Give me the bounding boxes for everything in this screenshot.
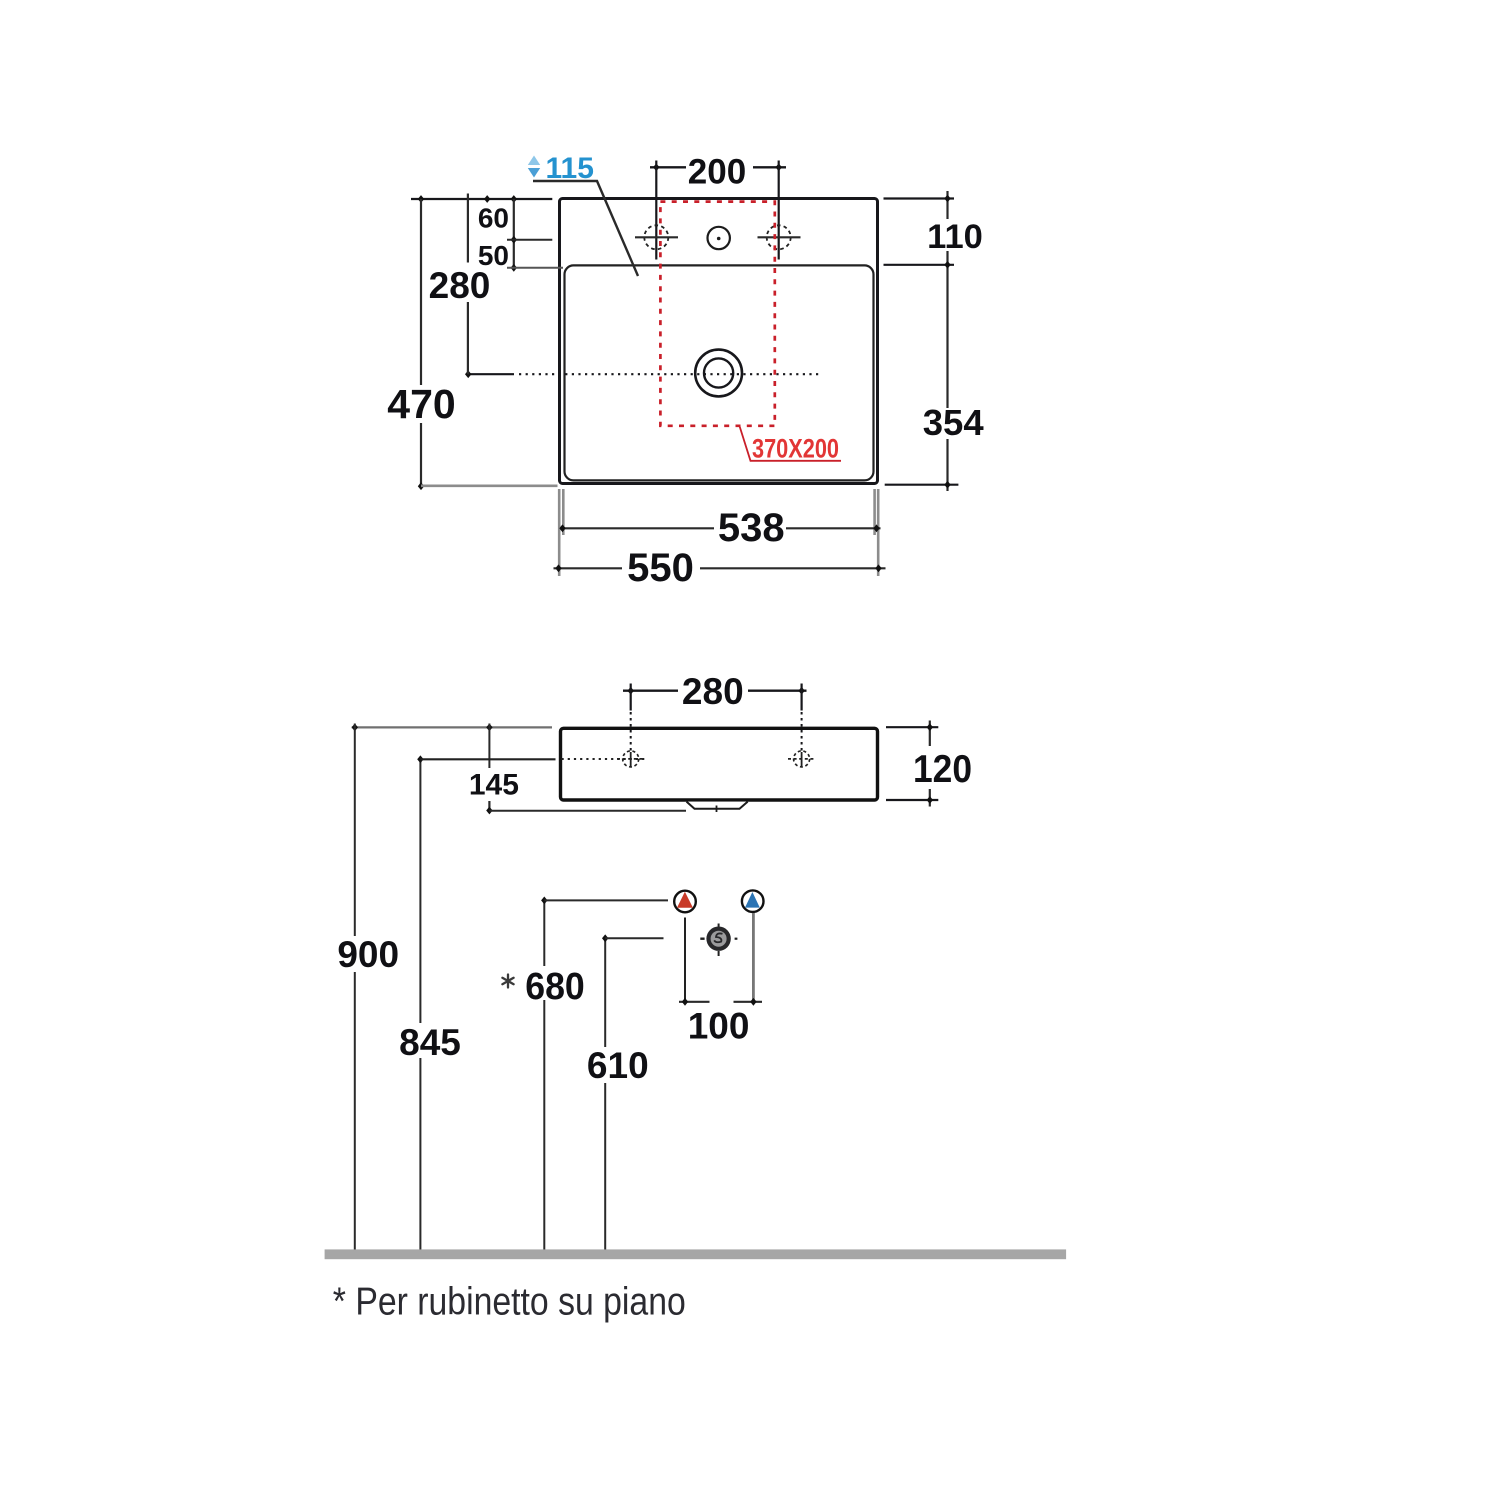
dim 100 [679, 1001, 710, 1003]
svg-text:145: 145 [469, 769, 519, 802]
svg-text:100: 100 [688, 1005, 750, 1046]
svg-text:370X200: 370X200 [752, 434, 839, 464]
svg-text:550: 550 [627, 546, 694, 590]
faucet cross right [767, 225, 791, 249]
left top extension line [411, 198, 552, 200]
svg-text:610: 610 [587, 1045, 649, 1086]
svg-text:120: 120 [913, 748, 972, 791]
drain boss under rect [687, 802, 748, 809]
svg-text:110: 110 [927, 218, 983, 256]
svg-text:115: 115 [545, 152, 593, 185]
svg-text:845: 845 [399, 1022, 461, 1063]
wire below hot symbol [684, 918, 686, 1002]
bottom gray extensions [558, 489, 561, 576]
svg-text:680: 680 [525, 966, 585, 1008]
dim 145 [488, 724, 490, 769]
dim 680 vertical [543, 900, 545, 966]
dotted line inside [562, 758, 647, 760]
red leader + label [740, 426, 842, 461]
dim 60/50 vertical [513, 199, 515, 268]
center dotted line [468, 373, 514, 375]
svg-text:50: 50 [478, 240, 509, 271]
faucet cross left [644, 225, 668, 249]
svg-text:60: 60 [478, 202, 509, 233]
svg-text:900: 900 [337, 934, 399, 975]
cold (blue) symbol [742, 890, 764, 912]
svg-text:200: 200 [688, 153, 746, 192]
sink outer rect [560, 199, 878, 484]
dim 550 [554, 567, 623, 569]
dim 280 front [623, 690, 678, 692]
icon arrows blue [528, 156, 540, 166]
extension line left faucet [655, 161, 657, 260]
top extension for 900/145 [352, 726, 552, 728]
leader 115 [533, 181, 638, 276]
dim 470 vertical [420, 199, 422, 385]
dim 120 [886, 726, 938, 728]
hot (red) symbol [674, 891, 696, 913]
overflow hole [708, 227, 730, 249]
front faucet crosses [623, 751, 639, 767]
floor line [325, 1249, 1067, 1259]
dim 200 [650, 166, 686, 168]
svg-text:280: 280 [682, 671, 744, 712]
right extension lines [884, 197, 955, 199]
basin inner rect [565, 265, 874, 480]
dim 845 vertical [419, 759, 421, 1023]
svg-text:280: 280 [429, 265, 491, 306]
dim 900 vertical [354, 724, 356, 937]
svg-text:* Per rubinetto su piano: * Per rubinetto su piano [333, 1281, 686, 1324]
drain circles [695, 350, 742, 397]
dim 610 vertical [604, 938, 606, 1047]
dim 110/354 vertical [946, 191, 948, 219]
wire below cold symbol [752, 913, 755, 1002]
svg-text:470: 470 [387, 381, 455, 427]
dim 538 [563, 527, 715, 529]
sink front rect [561, 728, 878, 800]
asterisk marker [502, 975, 513, 988]
svg-text:354: 354 [923, 402, 985, 443]
red dashed rect 370x200 [660, 202, 774, 426]
svg-text:538: 538 [718, 506, 785, 550]
gray ext bottom-left [421, 484, 558, 487]
drain front [718, 924, 720, 929]
dim 280 vertical [467, 194, 469, 263]
extension line right faucet [778, 161, 780, 260]
